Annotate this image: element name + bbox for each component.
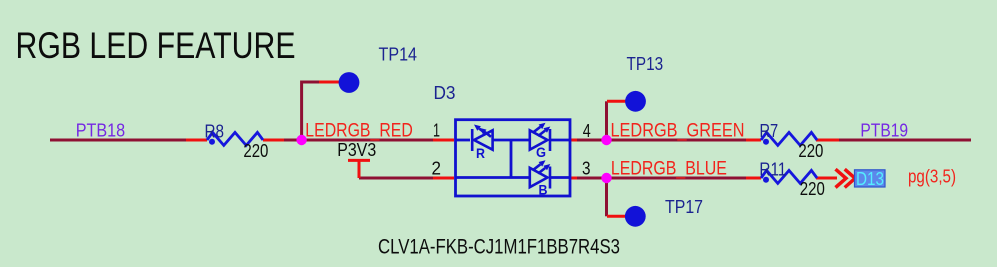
LED B arrowheads [539,160,546,166]
svg-text:R7: R7 [760,120,779,141]
offpage connector chevrons [836,169,856,187]
svg-text:LEDRGB_RED: LEDRGB_RED [305,120,413,141]
wire inside row2 [456,176,531,179]
svg-text:LEDRGB_BLUE: LEDRGB_BLUE [611,159,727,180]
svg-text:220: 220 [798,140,823,161]
svg-text:PTB19: PTB19 [860,120,908,141]
wire TP14 red stub [319,81,341,84]
wire inside row1 mid [493,139,530,142]
resistor R8 [207,132,263,145]
svg-text:R8: R8 [205,121,225,142]
wire R8 to pin1 [284,139,433,142]
svg-text:LEDRGB_GREEN: LEDRGB_GREEN [611,121,745,142]
LED B of D3 [530,164,550,188]
LED R arrowheads [474,125,481,131]
svg-text:CLV1A-FKB-CJ1M1F1BB7R4S3: CLV1A-FKB-CJ1M1F1BB7R4S3 [378,235,620,259]
svg-text:R: R [476,145,485,161]
wire red before R8 [186,139,207,142]
wire red after R8 [263,139,284,142]
svg-text:RGB LED FEATURE: RGB LED FEATURE [16,25,296,66]
svg-text:1: 1 [433,120,440,141]
svg-text:B: B [539,182,548,198]
wire TP17 vertical branch [605,178,608,216]
wire red before R11 [746,177,761,180]
wire inside common vertical [510,140,513,178]
resistor R11 pin dot [763,177,769,183]
wire R7 to PTB19 right [839,139,971,142]
wire pin3 to R11 [577,177,746,180]
svg-text:220: 220 [243,140,268,161]
wire pin 1 stub [433,139,454,142]
svg-text:4: 4 [583,120,591,141]
wire inside row1 right [550,139,570,142]
wire pin 4 stub [571,139,577,142]
svg-text:TP13: TP13 [627,53,664,74]
wire pin4 to R7 [577,139,746,142]
LED G arrowheads [539,123,546,129]
svg-text:D3: D3 [434,82,456,103]
wire red before R7 [746,139,761,142]
svg-text:PTB18: PTB18 [76,119,126,140]
junction node LEDRGB_GREEN [601,135,611,145]
LED G of D3 [530,127,550,151]
resistor R7 [761,132,817,145]
resistor R8 pin dot [209,139,215,145]
wire inside row1 left [456,139,471,142]
wire TP14 vertical branch [302,82,319,140]
power P3V3 symbol [348,160,370,178]
testpoint TP17 [625,206,646,227]
svg-text:R11: R11 [759,159,786,180]
testpoint TP14 [339,72,360,93]
wire pin 3 stub [571,177,577,180]
svg-text:G: G [536,144,546,160]
wire PTB18 left [50,139,186,142]
svg-text:220: 220 [800,178,825,199]
svg-text:D13: D13 [856,168,884,189]
RGB LED D3 body [456,120,571,196]
svg-text:pg(3,5): pg(3,5) [908,166,956,187]
svg-text:3: 3 [582,157,591,178]
wire P3V3 to pin2 [359,177,433,180]
junction node LEDRGB_RED [296,135,306,145]
wire red after R11 to offpage [816,177,837,180]
wire pin 2 stub [433,177,454,180]
offpage ref D13 highlight [855,170,886,187]
wire TP13 vertical branch [605,101,608,140]
testpoint TP13 [625,91,646,112]
svg-text:2: 2 [432,157,442,178]
svg-text:TP14: TP14 [379,44,418,65]
svg-text:TP17: TP17 [665,196,703,217]
wire net LEDRGB_RED row1 maroon segments [50,82,971,216]
wire red after R7 [816,139,839,142]
svg-text:P3V3: P3V3 [337,139,376,160]
wire inside row2 right [550,176,570,179]
resistor R7 pin dot [763,139,769,145]
wire TP17 red stub [607,215,627,218]
LED R of D3 [472,129,492,152]
red pin wire segments [186,82,839,216]
resistor R11 [761,170,817,183]
junction node LEDRGB_BLUE [601,173,611,183]
wire TP13 red stub [607,100,628,103]
